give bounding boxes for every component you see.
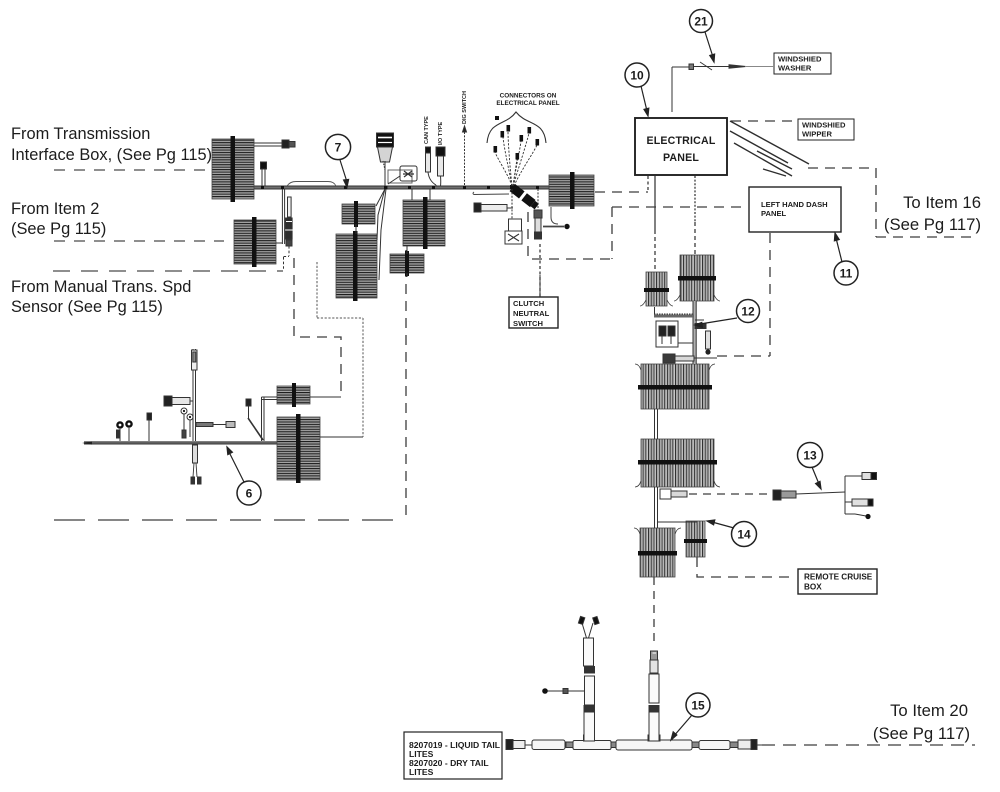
- svg-text:REMOTE CRUISE: REMOTE CRUISE: [804, 573, 873, 582]
- svg-text:PANEL: PANEL: [761, 209, 787, 218]
- svg-text:To Item 20: To Item 20: [890, 701, 968, 720]
- svg-text:SWITCH: SWITCH: [513, 319, 543, 328]
- svg-text:21: 21: [694, 15, 708, 29]
- svg-text:10: 10: [630, 69, 644, 83]
- svg-text:WASHER: WASHER: [778, 64, 812, 73]
- svg-text:(See Pg 115): (See Pg 115): [11, 220, 106, 238]
- svg-text:From Item 2: From Item 2: [11, 200, 99, 218]
- svg-text:CONNECTORS ON: CONNECTORS ON: [500, 93, 557, 100]
- svg-text:From Transmission: From Transmission: [11, 125, 150, 143]
- svg-text:(See Pg 117): (See Pg 117): [873, 724, 970, 743]
- svg-text:To Item 16: To Item 16: [903, 193, 981, 212]
- svg-text:ELECTRICAL: ELECTRICAL: [646, 135, 715, 147]
- svg-text:From Manual Trans. Spd: From Manual Trans. Spd: [11, 278, 191, 296]
- svg-text:CLUTCH: CLUTCH: [513, 299, 544, 308]
- svg-text:LITES: LITES: [409, 767, 434, 777]
- svg-text:DIG SWITCH: DIG SWITCH: [462, 91, 468, 124]
- svg-text:NEUTRAL: NEUTRAL: [513, 309, 550, 318]
- svg-text:ELECTRICAL PANEL: ELECTRICAL PANEL: [496, 100, 559, 107]
- svg-text:Interface Box, (See Pg 115): Interface Box, (See Pg 115): [11, 146, 212, 164]
- svg-text:15: 15: [691, 699, 705, 713]
- svg-text:14: 14: [737, 528, 751, 542]
- svg-text:12: 12: [741, 305, 755, 319]
- svg-text:PANEL: PANEL: [663, 152, 699, 164]
- svg-text:Sensor (See Pg 115): Sensor (See Pg 115): [11, 298, 163, 316]
- svg-text:WIPPER: WIPPER: [802, 130, 832, 139]
- svg-text:13: 13: [803, 449, 817, 463]
- svg-text:CAN TYPE: CAN TYPE: [424, 116, 430, 144]
- svg-text:7: 7: [335, 141, 342, 155]
- svg-text:(See Pg 117): (See Pg 117): [884, 215, 981, 234]
- svg-text:WINDSHIED: WINDSHIED: [802, 121, 846, 130]
- svg-text:LEFT HAND DASH: LEFT HAND DASH: [761, 200, 828, 209]
- svg-text:6: 6: [246, 487, 253, 501]
- svg-text:I/O TYPE: I/O TYPE: [438, 121, 444, 145]
- svg-text:WINDSHIED: WINDSHIED: [778, 55, 822, 64]
- svg-text:11: 11: [840, 267, 853, 281]
- svg-text:BOX: BOX: [804, 583, 822, 592]
